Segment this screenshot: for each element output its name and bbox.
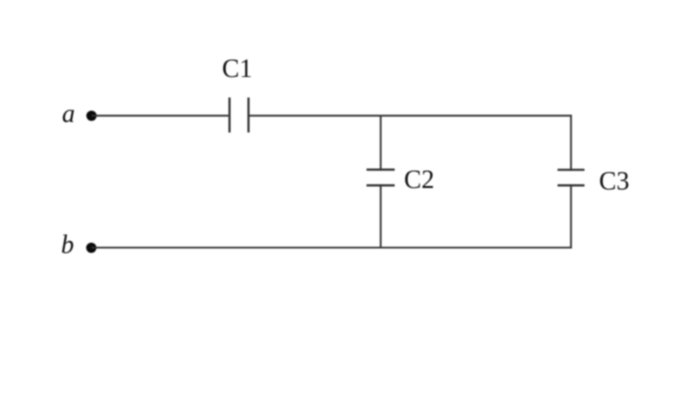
bottom wire b to bottom-right corner — [91, 247, 572, 249]
wire C1 right plate to top-right corner — [250, 115, 572, 117]
svg-text:C2: C2 — [404, 165, 434, 194]
wire C3 bottom plate to bottom wire — [570, 184, 572, 248]
wire top-right corner down to C3 top plate — [570, 115, 572, 171]
svg-text:b: b — [61, 230, 74, 259]
node b — [61, 230, 97, 259]
node a — [62, 99, 97, 128]
wire junction down to C2 top plate — [380, 116, 382, 171]
svg-text:a: a — [62, 99, 75, 128]
capacitor C1 — [222, 54, 252, 133]
svg-text:C1: C1 — [222, 54, 252, 83]
wire C2 bottom plate to bottom wire — [380, 184, 382, 248]
wire a to C1 left plate — [92, 115, 229, 117]
capacitor C2 — [367, 165, 435, 194]
capacitor C3 — [558, 167, 630, 196]
svg-text:C3: C3 — [599, 167, 629, 196]
